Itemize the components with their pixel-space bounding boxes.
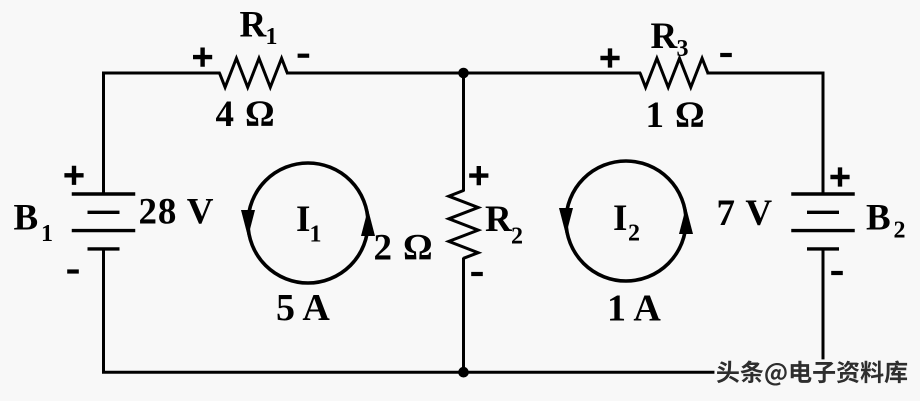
wire left rail lower: [102, 249, 105, 372]
value 2 ohm of R2: [374, 228, 434, 269]
polarity - of B2: [831, 271, 843, 275]
svg-text:4 Ω: 4 Ω: [216, 94, 276, 135]
value 5 A of I1: [276, 287, 330, 329]
polarity - of R2: [471, 272, 483, 276]
arrowhead I2 left (down): [559, 208, 573, 235]
polarity - of R1: [298, 54, 310, 58]
polarity + of R3: [600, 48, 619, 67]
svg-text:2 Ω: 2 Ω: [374, 228, 434, 269]
label B2: [866, 198, 906, 244]
polarity + of R2: [469, 166, 488, 185]
arrowhead I1 right (up): [361, 209, 375, 236]
node bottom junction: [458, 367, 469, 378]
polarity + of B1: [64, 166, 83, 185]
svg-text:B: B: [14, 198, 40, 239]
wire middle vertical upper: [462, 73, 465, 192]
label B1: [14, 198, 54, 248]
wire top middle: [286, 72, 641, 75]
svg-text:2: 2: [894, 218, 906, 244]
svg-text:R: R: [651, 16, 679, 57]
svg-text:R: R: [485, 199, 513, 240]
mesh current loop I2: [566, 161, 686, 281]
polarity + of R1: [193, 48, 212, 67]
resistor R3: [640, 58, 708, 87]
label I2: [613, 198, 640, 247]
svg-text:1: 1: [310, 222, 322, 248]
value 1 A of I2: [607, 288, 661, 330]
value 7 V of B2: [717, 193, 774, 234]
label R2: [485, 199, 523, 250]
svg-text:28 V: 28 V: [139, 192, 215, 233]
label R3: [651, 16, 689, 62]
arrowhead I2 right (up): [679, 207, 693, 234]
svg-text:3: 3: [677, 36, 689, 62]
wire bottom rail: [102, 371, 825, 374]
svg-text:1: 1: [266, 24, 278, 50]
svg-text:1 A: 1 A: [607, 288, 661, 330]
svg-text:2: 2: [628, 221, 640, 247]
watermark halo 头条@电子资料库: [717, 361, 907, 386]
svg-text:1 Ω: 1 Ω: [646, 95, 706, 136]
value 4 ohm of R1: [216, 94, 276, 135]
battery B1: [72, 194, 136, 249]
svg-text:I: I: [613, 198, 628, 239]
wire top-left corner + left rail upper: [104, 73, 221, 194]
resistor R1: [219, 58, 287, 87]
svg-text:R: R: [240, 5, 268, 46]
mesh current loop I1: [248, 163, 368, 283]
svg-text:2: 2: [511, 224, 523, 250]
svg-text:7 V: 7 V: [717, 193, 774, 234]
wire middle vertical lower: [462, 258, 465, 373]
polarity - of B1: [67, 269, 79, 273]
watermark text 头条@电子资料库: [717, 361, 907, 386]
value 28 V of B1: [139, 192, 215, 233]
value 1 ohm of R3: [646, 95, 706, 136]
battery B2: [791, 194, 855, 249]
wire right rail lower: [822, 249, 825, 372]
svg-text:B: B: [866, 198, 892, 239]
arrowhead I1 left (down): [241, 210, 255, 237]
svg-text:5 A: 5 A: [276, 287, 330, 329]
polarity + of B2: [830, 167, 849, 186]
resistor R2: [449, 191, 478, 259]
label I1: [296, 199, 322, 248]
label R1: [240, 5, 278, 51]
svg-text:1: 1: [41, 221, 53, 247]
node top junction: [458, 68, 469, 79]
wire top-right corner + right rail upper: [707, 73, 824, 194]
polarity - of R3: [720, 53, 732, 57]
